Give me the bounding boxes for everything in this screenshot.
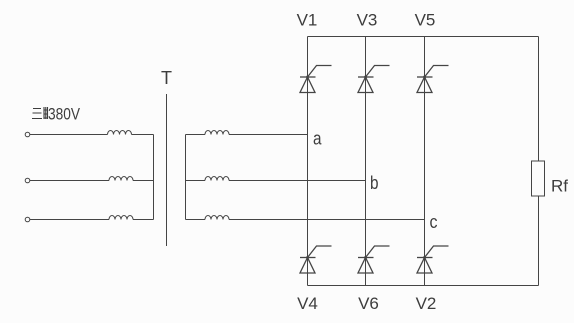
bridge leg 2 wire	[365, 37, 367, 286]
svg-text:Rf: Rf	[551, 177, 568, 196]
wire primary B to bus	[133, 180, 154, 182]
wire phase a to bridge	[229, 134, 308, 136]
svg-text:V6: V6	[358, 294, 379, 313]
secondary winding phase a	[205, 131, 229, 135]
svg-text:V5: V5	[415, 11, 436, 30]
bridge leg 3 wire	[424, 37, 426, 286]
svg-text:V1: V1	[297, 11, 318, 30]
svg-text:c: c	[430, 212, 438, 232]
svg-text:380V: 380V	[48, 105, 81, 124]
thyristor V2	[417, 246, 449, 273]
thyristor V3	[358, 66, 390, 93]
primary winding phase B	[109, 177, 133, 181]
primary winding phase C	[109, 216, 133, 220]
thyristor V5	[417, 66, 449, 93]
terminal phase B	[25, 178, 30, 183]
load wire bottom	[538, 196, 540, 286]
svg-text:a: a	[313, 129, 322, 149]
wire phase A to primary	[30, 134, 108, 136]
svg-text:V3: V3	[357, 11, 378, 30]
wire primary A to bus	[132, 134, 154, 136]
wire secondary bus to winding C	[186, 219, 206, 221]
svg-text:V2: V2	[416, 294, 437, 313]
thyristor V4	[300, 246, 332, 273]
thyristor V1	[300, 66, 332, 93]
terminal phase C	[25, 217, 30, 222]
load wire top	[538, 37, 540, 162]
primary neutral bus	[153, 135, 155, 220]
bridge leg 1 wire	[307, 37, 309, 286]
label source 三相380V	[32, 107, 48, 119]
wire secondary bus to winding A	[186, 134, 206, 136]
terminal phase A	[25, 132, 30, 137]
wire phase b to bridge	[229, 180, 366, 182]
wire primary C to bus	[133, 219, 154, 221]
secondary neutral bus	[185, 135, 187, 220]
primary winding phase A	[108, 131, 132, 135]
secondary winding phase c	[205, 216, 229, 220]
transformer T core	[166, 94, 168, 246]
svg-text:V4: V4	[297, 294, 318, 313]
secondary winding phase b	[205, 177, 229, 181]
wire phase c to bridge	[229, 219, 425, 221]
svg-text:b: b	[370, 173, 379, 193]
svg-text:T: T	[161, 68, 172, 88]
wire phase B to primary	[30, 180, 109, 182]
bottom DC bus	[308, 285, 539, 287]
wire secondary bus to winding B	[186, 180, 206, 182]
wire phase C to primary	[30, 219, 109, 221]
thyristor V6	[358, 246, 390, 273]
top DC bus	[308, 36, 539, 38]
resistor Rf	[532, 161, 545, 196]
